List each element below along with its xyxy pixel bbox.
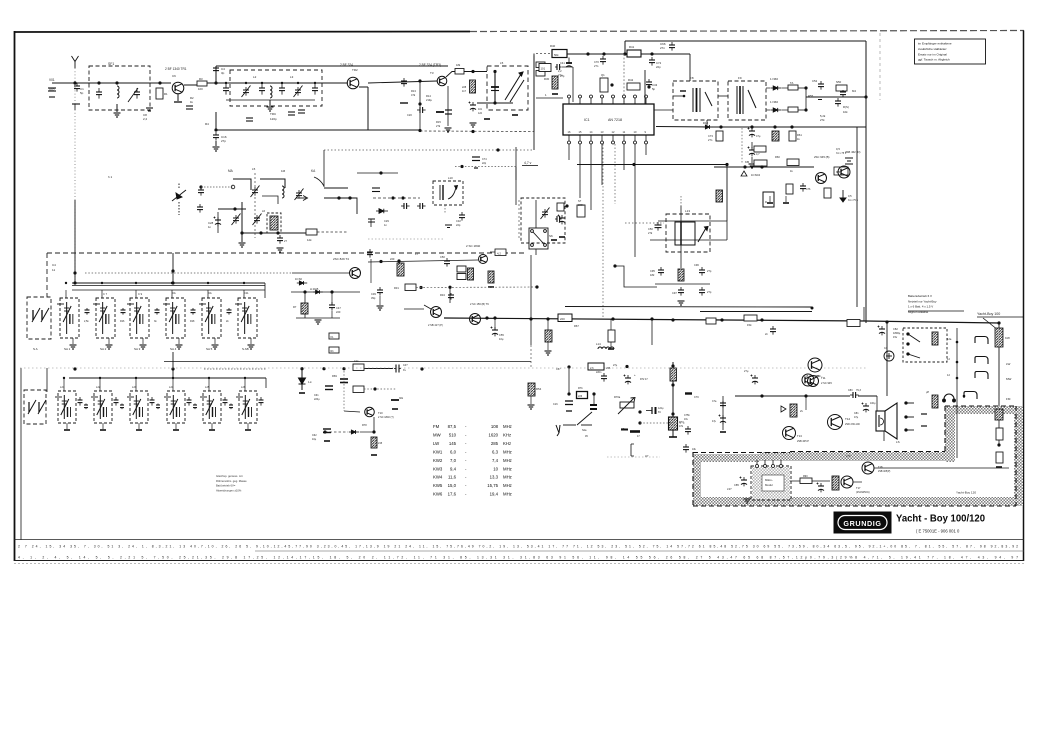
wire (135, 378, 137, 391)
wire (101, 290, 103, 298)
svg-text:SA 4: SA 4 (170, 347, 177, 351)
svg-text:27p: 27p (707, 269, 712, 273)
junction (804, 108, 807, 111)
diode D10 (703, 125, 713, 129)
ground (239, 243, 246, 247)
wire pin15 (579, 144, 581, 198)
coil L2 (270, 86, 272, 98)
junction (683, 95, 686, 98)
wire (243, 290, 245, 298)
bold mark (621, 429, 628, 431)
svg-text:4,7 v: 4,7 v (524, 161, 532, 165)
wire (304, 292, 306, 318)
svg-text:C97: C97 (672, 291, 677, 295)
tuning gang dashed link (254, 173, 256, 238)
grey band step vertical (945, 406, 955, 462)
resistor R80 (932, 332, 938, 345)
junction (214, 128, 217, 131)
svg-text:S?: S? (578, 199, 582, 203)
module pin (772, 460, 775, 468)
band switch contact FM (964, 392, 977, 400)
dashed border right (1015, 406, 1017, 506)
arrow into T8 (424, 305, 431, 309)
svg-text:16v: 16v (684, 418, 689, 421)
svg-text:L6: L6 (262, 209, 266, 213)
wire (63, 378, 65, 391)
transistor T8 (431, 307, 442, 318)
svg-text:S6: S6 (549, 234, 553, 238)
svg-text:C73: C73 (708, 134, 713, 138)
svg-text:4,: 4, 1, 2, 4, 5, 14, 5, 5, 2,21 5, 7,50, 2… (18, 556, 1018, 560)
coupling capacitor 2 (156, 404, 160, 410)
ground (136, 429, 142, 431)
coupling capacitor (114, 397, 119, 406)
dotted wire (364, 388, 396, 390)
ground (106, 345, 113, 349)
junction (535, 285, 538, 288)
ground (551, 239, 557, 241)
wire L13 down (680, 245, 682, 268)
wire (805, 396, 807, 410)
wire pin13 (601, 144, 603, 185)
junction (567, 365, 570, 368)
wire (215, 141, 217, 146)
svg-text:11,6: 11,6 (448, 475, 457, 480)
capacitor C16 27p (213, 132, 219, 141)
trimmer C13 (294, 86, 303, 98)
AM filter stage 6 (236, 391, 257, 423)
resistor R3 (197, 81, 207, 86)
IC1 top pin 7 (634, 95, 637, 104)
wire preamp rail (714, 166, 814, 168)
junction (391, 196, 394, 199)
wire (102, 423, 104, 429)
pointer line (983, 318, 998, 330)
wire to jack (874, 467, 1009, 469)
band switch contact KW (975, 337, 988, 345)
inter-stage capacitor (121, 308, 126, 315)
junction (101, 282, 103, 284)
wire to IC pin (644, 70, 646, 104)
svg-text:2 SC 1840 (?): 2 SC 1840 (?) (378, 416, 394, 419)
IF filter SA 4 (163, 298, 185, 338)
detector winding (737, 86, 756, 114)
wire (172, 378, 174, 391)
wire pin16 (568, 144, 570, 160)
svg-text:1n: 1n (384, 223, 387, 227)
wire to top rail (215, 66, 217, 83)
ground (749, 164, 756, 168)
svg-text:KW3: KW3 (433, 466, 443, 471)
band switch contact LW (975, 357, 988, 365)
svg-text:39p: 39p (371, 296, 376, 300)
wire (247, 423, 249, 429)
on-off switch module outline (903, 328, 947, 362)
diode D6 (313, 290, 323, 294)
ground (767, 202, 773, 204)
tuning gang section SA (27, 297, 51, 339)
diode D2 1N60 (770, 108, 781, 112)
wire to T4 (292, 272, 349, 274)
wire TR3 emitter (447, 86, 449, 126)
dashed link (518, 200, 520, 240)
svg-text:C29: C29 (384, 219, 389, 223)
svg-text:C 7: C 7 (103, 292, 108, 296)
ground (248, 345, 255, 349)
svg-text:6V: 6V (658, 411, 661, 414)
resistor R51 (788, 107, 798, 112)
rail vertical left of IC (533, 54, 535, 151)
svg-text:12k: 12k (307, 238, 312, 242)
terminal (231, 185, 235, 189)
trimmer C24 (232, 214, 241, 226)
junction (671, 412, 674, 415)
resistor R58 (772, 131, 779, 141)
transistor T14 (802, 374, 814, 386)
wire (250, 338, 252, 344)
transistor TR1 (172, 82, 184, 94)
capacitor C50b (655, 222, 662, 231)
microphone module outline (751, 466, 791, 500)
resistor R30 (552, 76, 558, 89)
junction (303, 290, 306, 293)
dotted drop to pin (623, 54, 625, 102)
junction (276, 231, 279, 234)
rail down to AGC (533, 56, 535, 132)
tuner module dashed left (46, 253, 48, 297)
coupling capacitor (223, 397, 228, 406)
svg-text:10: 10 (493, 466, 498, 471)
resistor R7b (577, 392, 588, 399)
svg-text:12: 12 (947, 373, 950, 377)
transistor T5 (479, 255, 488, 264)
svg-text:47µ: 47µ (712, 420, 717, 423)
wire (367, 87, 369, 130)
junction (208, 377, 210, 379)
wire down to output rail (886, 322, 888, 396)
svg-text:R61: R61 (797, 133, 802, 137)
wire (138, 423, 140, 429)
svg-text:22p: 22p (456, 223, 461, 227)
svg-text:C80: C80 (848, 389, 853, 392)
svg-text:2SC 945 (B): 2SC 945 (B) (814, 155, 829, 159)
junction (592, 392, 595, 395)
svg-text:AN 7218: AN 7218 (608, 118, 622, 122)
IF bus 2 (72, 289, 265, 291)
resistor R62b (754, 160, 767, 166)
dashed border top-mid (790, 451, 945, 453)
wire osc top (357, 172, 398, 174)
transistor T11 (808, 376, 819, 387)
supply rail dotted part (536, 53, 552, 55)
svg-text:MHz: MHz (503, 466, 512, 471)
capacitor C51 (367, 249, 373, 258)
wire through SF1 (89, 82, 150, 84)
svg-text:100µ: 100µ (870, 402, 876, 405)
capacitor C21b (436, 111, 444, 113)
antenna feed line (dotted) (74, 68, 76, 283)
takeoff dotted line (324, 149, 534, 151)
svg-text:15k: 15k (747, 323, 752, 327)
rail A vertical (856, 127, 858, 307)
AM filter stage 4 (164, 391, 185, 423)
frequency table row MW (433, 432, 511, 437)
wire bandfilter rail (216, 82, 348, 84)
coupling capacitor (150, 397, 155, 406)
module label plate (762, 475, 784, 491)
svg-text:Yacht-Boy 100: Yacht-Boy 100 (977, 312, 1000, 316)
svg-text:220: 220 (336, 310, 341, 314)
voltage box (495, 249, 506, 256)
junction (372, 430, 375, 433)
svg-text:5p: 5p (652, 87, 656, 91)
junction (243, 282, 245, 284)
junction (418, 102, 421, 105)
transistor T12 (828, 415, 843, 430)
svg-text:3k: 3k (154, 320, 157, 323)
wire TR3 collector (446, 72, 455, 78)
AM filter stage 5 (200, 391, 221, 423)
svg-text:R7: R7 (293, 305, 297, 309)
wire IC pin 1 (536, 97, 563, 99)
svg-text:KW: KW (1005, 336, 1010, 340)
svg-text:10µ: 10µ (312, 438, 317, 441)
resistor pair boxes (457, 266, 466, 280)
wire pin12 dotted (614, 144, 616, 204)
electrolytic C74 47µ (748, 128, 756, 138)
wire (172, 352, 174, 378)
page frame top edge right part (470, 31, 1024, 32)
svg-text:220: 220 (560, 317, 565, 321)
svg-text:F9: F9 (738, 76, 742, 80)
svg-text:122: 122 (478, 112, 483, 115)
resistor R79 (371, 437, 377, 448)
junction (720, 318, 723, 321)
wire (449, 287, 451, 303)
svg-text:2SB 405 P: 2SB 405 P (797, 440, 809, 443)
transistor T6 (816, 173, 827, 184)
coil winding (440, 185, 458, 200)
ground (445, 225, 452, 228)
junction (379, 260, 382, 263)
svg-text:LW: LW (433, 441, 440, 446)
trimmer arrows (32, 308, 49, 322)
wire (178, 338, 180, 344)
wire (208, 378, 210, 391)
wire (798, 87, 806, 89)
svg-text:C32: C32 (456, 219, 461, 223)
junction (760, 318, 763, 321)
wire (751, 157, 753, 163)
svg-text:Batteriebetrieb 6 V: Batteriebetrieb 6 V (908, 294, 932, 298)
wire (535, 200, 537, 255)
svg-text:MHz: MHz (503, 458, 512, 463)
junction (611, 317, 614, 320)
svg-text:SA 2: SA 2 (100, 347, 107, 351)
svg-text:C61: C61 (314, 394, 319, 397)
wire (568, 367, 570, 394)
junction (671, 318, 674, 321)
svg-text:15,75: 15,75 (487, 483, 498, 488)
supply rail (567, 53, 690, 55)
ground (720, 431, 726, 433)
crystal N1 (270, 216, 278, 230)
wire to TR3 (368, 81, 437, 83)
junction (418, 79, 421, 82)
junction (638, 410, 641, 413)
svg-text:5p: 5p (80, 91, 84, 95)
capacitor C11 (259, 84, 265, 95)
svg-text:100: 100 (198, 87, 203, 91)
svg-text:1N 60/4: 1N 60/4 (751, 173, 761, 177)
wire T10 emitter (373, 417, 375, 432)
junction (632, 163, 635, 166)
svg-text:S2a: S2a (582, 429, 587, 432)
trimmer C33 (541, 208, 550, 220)
svg-text:R7b: R7b (578, 387, 583, 390)
svg-text:1 N60: 1 N60 (770, 77, 778, 81)
svg-text:27µ: 27µ (613, 364, 618, 367)
dotted drop (444, 205, 446, 214)
wire to L13 secondary (615, 266, 657, 287)
svg-text:L5: L5 (252, 167, 256, 171)
svg-text:11: 11 (52, 268, 55, 272)
svg-text:R69: R69 (332, 374, 337, 378)
svg-text:0,5: 0,5 (848, 194, 852, 198)
wire (218, 208, 246, 210)
svg-text:47k: 47k (411, 93, 416, 97)
svg-text:KA: KA (311, 169, 316, 173)
svg-text:R40: R40 (550, 44, 556, 48)
svg-text:D10: D10 (703, 121, 709, 125)
svg-text:R67: R67 (574, 324, 579, 328)
input filter SF1 (89, 66, 150, 110)
dashed wire (325, 431, 348, 433)
svg-text:DA: DA (208, 291, 212, 295)
ground (470, 123, 477, 127)
wire (265, 378, 267, 388)
junction (207, 282, 209, 284)
junction (115, 81, 118, 84)
junction (135, 282, 137, 284)
svg-text:-: - (465, 441, 467, 446)
electrolytic C55 10µ (491, 327, 499, 337)
wire (331, 311, 333, 318)
wire to mixer (324, 187, 348, 189)
wire pin14 (590, 144, 592, 210)
resistor R69b 1N (706, 318, 716, 324)
wire (883, 431, 885, 441)
dashed border left (692, 452, 694, 506)
wire (331, 292, 333, 305)
osc module outline (433, 181, 463, 205)
AF takeoff rail (712, 126, 866, 128)
ground (174, 101, 182, 103)
svg-text:C39: C39 (371, 292, 376, 296)
capacitor C17 (246, 118, 253, 121)
svg-text:T15 2 SC 945: T15 2 SC 945 (804, 375, 820, 378)
svg-text:C76: C76 (806, 188, 811, 191)
svg-text:2 BF 324: 2 BF 324 (340, 63, 353, 67)
grey band left (693, 454, 701, 506)
wire (99, 378, 101, 391)
wire into L13 (680, 206, 682, 222)
resistor R58 box (588, 363, 604, 370)
junction (625, 365, 628, 368)
svg-text:18k: 18k (456, 63, 461, 67)
wire to TR2 (322, 82, 347, 84)
capacitor C2 (48, 88, 56, 97)
IC1 bottom pin 16 (568, 135, 571, 144)
capacitor C53 (840, 90, 846, 97)
wire (269, 100, 271, 106)
junction (650, 52, 653, 55)
wire (863, 307, 865, 321)
svg-text:7,0: 7,0 (450, 458, 457, 463)
volume control (995, 409, 1003, 420)
junction (314, 82, 316, 84)
frequency table row KW5 (433, 483, 512, 488)
wire F8 down (706, 120, 708, 125)
svg-text:L10: L10 (448, 176, 453, 180)
wire to speaker (858, 395, 877, 397)
junction (418, 129, 421, 132)
module pin (756, 460, 759, 468)
capacitor C47 (329, 302, 335, 311)
svg-text:R34: R34 (440, 293, 445, 297)
resistor R67 box (558, 314, 572, 322)
svg-text:2 SC 1840: 2 SC 1840 (466, 244, 481, 248)
parts index rule dotted (14, 563, 1024, 565)
switch block (529, 228, 548, 249)
wire (494, 318, 496, 330)
junction (885, 320, 888, 323)
resistor R36 (468, 268, 474, 280)
junction (750, 125, 753, 128)
svg-text:226k: 226k (578, 203, 584, 207)
wire to T10 (344, 411, 360, 412)
wire (370, 259, 372, 283)
junction (233, 207, 236, 210)
svg-text:Netzteil nur Yacht-Boy: Netzteil nur Yacht-Boy (908, 299, 937, 303)
capacitor C78 2n (770, 326, 776, 335)
ground (484, 118, 490, 120)
capacitor C14 (312, 84, 318, 95)
wire (785, 196, 787, 202)
junction (493, 101, 496, 104)
FM switch bar (995, 328, 1003, 347)
svg-text:L7: L7 (415, 252, 419, 256)
ground (783, 202, 789, 204)
svg-text:KHz: KHz (503, 432, 511, 437)
junction (485, 316, 488, 319)
svg-text:510: 510 (449, 432, 457, 437)
svg-text:Q1: Q1 (601, 73, 605, 77)
wire (798, 109, 806, 111)
svg-text:Mignon Alkaline: Mignon Alkaline (908, 310, 929, 314)
dotted measurement link (455, 166, 516, 168)
svg-text:10µ: 10µ (499, 337, 504, 341)
dotted wire to L13 (625, 222, 664, 224)
svg-text:C50: C50 (440, 255, 445, 259)
contact (905, 402, 914, 404)
svg-text:2,7k: 2,7k (846, 455, 851, 458)
transistor TR2 (347, 77, 359, 89)
grey band top-right (948, 406, 1023, 414)
svg-text:R7C: R7C (679, 421, 684, 424)
pointer (490, 251, 495, 253)
wire L8 out (718, 95, 728, 97)
